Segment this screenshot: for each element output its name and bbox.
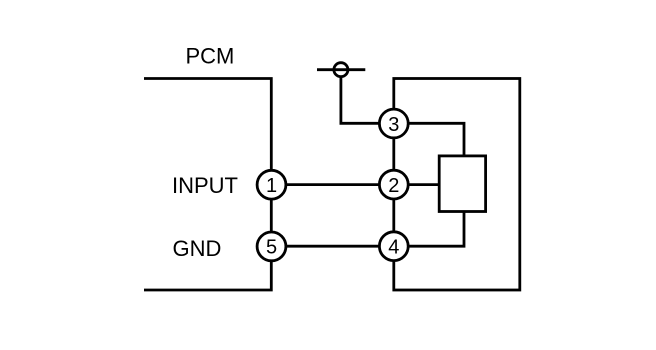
svg-text:3: 3 (388, 114, 399, 136)
svg-text:1: 1 (266, 175, 277, 197)
svg-text:GND: GND (173, 236, 222, 261)
svg-text:5: 5 (266, 237, 277, 259)
svg-text:2: 2 (388, 175, 399, 197)
svg-text:INPUT: INPUT (172, 173, 238, 198)
svg-text:4: 4 (388, 236, 399, 258)
svg-text:PCM: PCM (186, 44, 235, 69)
